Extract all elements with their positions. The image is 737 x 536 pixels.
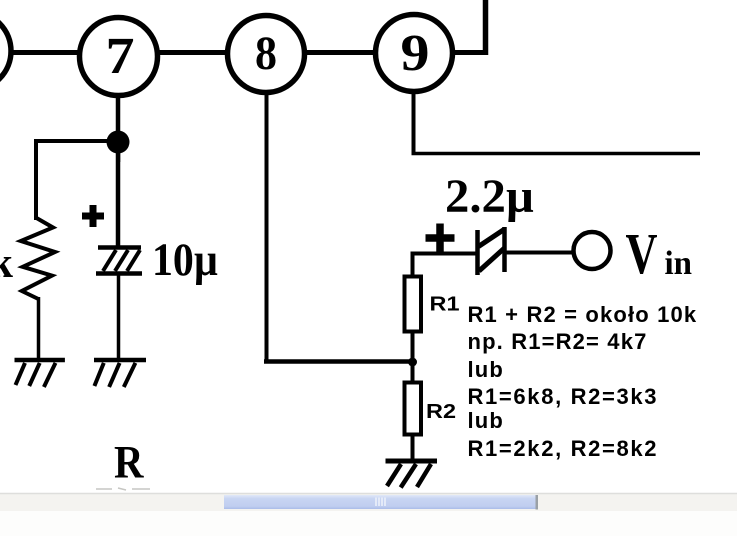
svg-text:V: V [626,221,658,286]
svg-text:8: 8 [255,27,277,80]
svg-text:R1 + R2 = około 10k: R1 + R2 = około 10k [468,302,698,327]
svg-text:2.2µ: 2.2µ [445,170,534,223]
svg-text:R1=6k8, R2=3k3: R1=6k8, R2=3k3 [468,384,659,409]
svg-text:lub: lub [468,357,504,382]
svg-text:np. R1=R2= 4k7: np. R1=R2= 4k7 [468,329,648,354]
svg-text:7: 7 [106,28,135,85]
svg-text:R1=2k2, R2=8k2: R1=2k2, R2=8k2 [468,436,659,461]
svg-text:R2: R2 [426,401,456,423]
svg-text:k: k [0,240,13,287]
svg-text:R: R [114,437,144,489]
svg-text:10µ: 10µ [152,234,218,286]
svg-text:9: 9 [401,25,430,82]
svg-text:lub: lub [468,408,504,433]
svg-text:R1: R1 [430,294,460,316]
svg-text:in: in [665,245,693,282]
